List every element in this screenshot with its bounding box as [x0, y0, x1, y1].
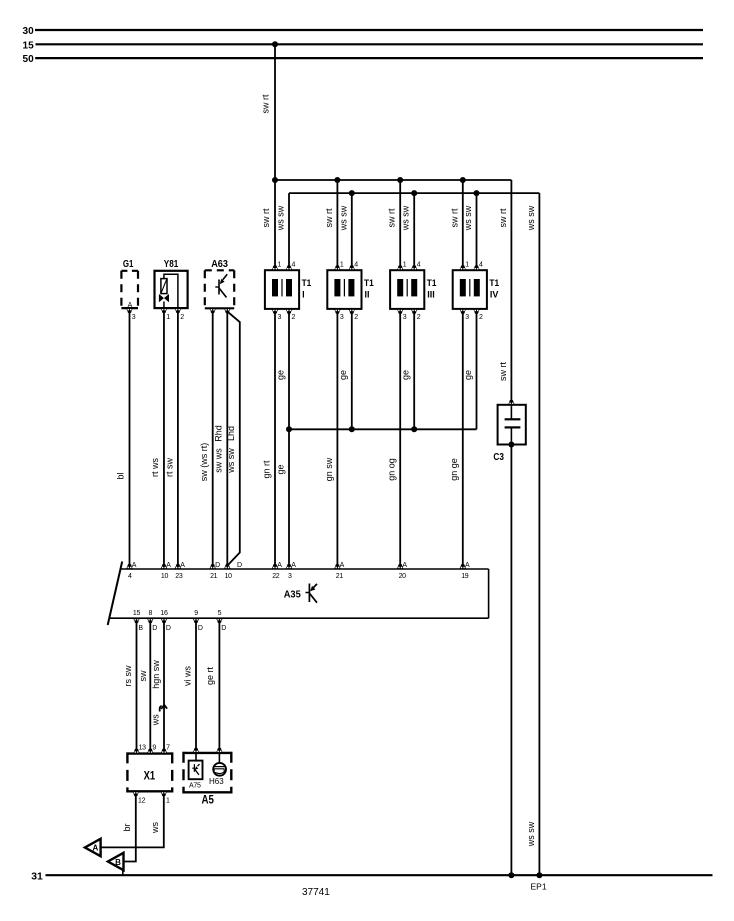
coil T1 I pin 4 [286, 262, 296, 271]
Y81 pin 1 [161, 308, 171, 321]
wire br X1 pin12 to ground B [123, 795, 136, 862]
svg-text:EP1: EP1 [531, 882, 547, 892]
control unit A35 box [108, 562, 489, 626]
svg-text:A: A [277, 562, 282, 569]
svg-text:5: 5 [218, 610, 222, 617]
svg-text:21: 21 [210, 573, 218, 580]
wire label ws sw coil III [401, 205, 411, 231]
svg-text:IV: IV [490, 290, 499, 300]
svg-text:I: I [302, 290, 305, 300]
wire label rt sw [164, 458, 174, 477]
svg-text:1: 1 [465, 262, 469, 269]
svg-text:30: 30 [23, 25, 34, 37]
colour change arrow on ws wire [160, 705, 167, 712]
wire label hgn sw [151, 660, 161, 689]
svg-text:sw rt: sw rt [498, 208, 508, 227]
svg-text:Lhd: Lhd [226, 426, 236, 441]
wire label br [122, 823, 132, 831]
bus wire terminal 50 [35, 57, 703, 59]
label coil T1 II [364, 278, 374, 300]
warning lamp H63 [213, 753, 226, 776]
wire label Rhd [213, 425, 223, 442]
svg-text:A: A [340, 562, 345, 569]
svg-text:A: A [166, 562, 171, 569]
wire gn sw coil II pin3 to A35 pin21 [336, 312, 338, 565]
svg-text:ws: ws [150, 822, 160, 834]
svg-text:III: III [427, 290, 435, 300]
svg-text:A: A [291, 562, 296, 569]
svg-text:2: 2 [417, 314, 421, 321]
svg-text:7: 7 [166, 745, 170, 752]
wire label rt ws [150, 458, 160, 477]
svg-text:II: II [365, 290, 370, 300]
wire label gn ge [449, 458, 459, 481]
A35 pin 19 [459, 562, 470, 580]
wire label ws sw coil II [338, 205, 348, 231]
svg-text:3: 3 [278, 314, 282, 321]
wire sw rt drop to coil T1 III pin1 [399, 180, 401, 267]
X1 pin 7 [161, 745, 171, 754]
A35 pin 16 [160, 610, 170, 632]
wire sw rt down to capacitor C3 [510, 180, 512, 405]
svg-text:4: 4 [128, 573, 132, 580]
svg-text:hgn sw: hgn sw [151, 660, 161, 689]
wire ws sw Lhd A63 to A35 pin10 [227, 312, 240, 566]
svg-text:A: A [128, 302, 133, 309]
svg-text:10: 10 [225, 573, 233, 580]
bus wire terminal 30 [35, 29, 703, 31]
wire gn og coil III pin3 to A35 pin20 [399, 312, 401, 565]
label terminal 31 [31, 871, 43, 883]
wire sw rt from terminal 15 down [274, 44, 276, 180]
label A35 [284, 589, 301, 601]
label H63 [209, 777, 224, 786]
G1 pin 3 [126, 308, 136, 321]
svg-text:rt sw: rt sw [164, 458, 174, 477]
wire label ge rt [205, 666, 215, 685]
wire rt ws Y81 pin1 to A35 pin10 [163, 311, 165, 565]
wire label ws sw (bottom right) [526, 821, 536, 847]
svg-text:3: 3 [403, 314, 407, 321]
svg-text:ge: ge [401, 370, 411, 380]
A5 pin (ge rt) [216, 748, 223, 753]
svg-text:3: 3 [465, 314, 469, 321]
wire hgn sw / ws A35 pin16 to X1 pin7 [163, 622, 165, 751]
svg-text:9: 9 [194, 610, 198, 617]
svg-text:rt ws: rt ws [150, 458, 160, 477]
svg-text:A5: A5 [202, 795, 215, 807]
svg-text:ws sw: ws sw [401, 205, 411, 231]
A35 pin 3 [286, 562, 297, 580]
A35 pin 5 [216, 610, 226, 632]
svg-text:4: 4 [417, 262, 421, 269]
wire label ws (ground) [150, 822, 160, 834]
svg-text:T1: T1 [302, 278, 312, 288]
label terminal 15 [23, 39, 34, 51]
wire label ws sw (Lhd wire) [226, 448, 236, 474]
svg-text:3: 3 [288, 573, 292, 580]
wire label sw rt (top) [261, 94, 271, 113]
coil T1 I pin 3 [272, 309, 282, 321]
svg-text:19: 19 [461, 573, 469, 580]
svg-text:gn rt: gn rt [261, 460, 271, 479]
wire label gn sw [324, 457, 334, 481]
wire label gn rt [261, 460, 271, 479]
label Y81 [164, 258, 179, 270]
label G1 [123, 258, 134, 270]
junction ws sw at EP1 [536, 872, 542, 878]
label coil T1 I [302, 278, 312, 300]
A35 pin 10 (rt ws) [161, 562, 172, 580]
svg-text:sw: sw [138, 670, 148, 682]
wire label sw rt coil I [261, 208, 271, 227]
wire label ge coil I [275, 370, 285, 380]
svg-text:T1: T1 [427, 278, 437, 288]
svg-text:ge: ge [338, 370, 348, 380]
wire sw rt drop to coil T1 I pin1 [274, 180, 276, 267]
X1 pin 9 [147, 745, 156, 754]
wire label sw rt above C3 [498, 362, 508, 381]
coil T1 II pin 4 [348, 262, 358, 271]
junction node coil IV sw rt [460, 177, 466, 183]
svg-text:16: 16 [160, 610, 168, 617]
label A63 [211, 258, 228, 270]
svg-text:vi ws: vi ws [182, 666, 192, 686]
wire ws sw drop to coil T1 II pin4 [351, 193, 353, 267]
coil T1 II pin 1 [334, 262, 344, 271]
wire label sw (ws rt) [199, 443, 209, 482]
coil T1 II pin 2 [348, 309, 358, 321]
coil T1 III pin 4 [411, 262, 421, 271]
svg-text:1: 1 [166, 798, 170, 805]
solenoid valve Y81 [155, 271, 188, 308]
svg-text:bl: bl [116, 472, 126, 479]
wire label sw rt coil II [324, 208, 334, 227]
svg-text:4: 4 [479, 262, 483, 269]
svg-text:sw rt: sw rt [498, 362, 508, 381]
wire ge rt A35 pin5 to H63 [218, 622, 220, 750]
wire bl G1 to A35 pin4 [129, 311, 131, 565]
wire ge coil II pin2 to ge bus [351, 312, 353, 429]
wire ws sw drop to coil T1 IV pin4 [476, 193, 478, 267]
svg-text:C3: C3 [493, 451, 504, 463]
svg-text:sw ws: sw ws [213, 448, 223, 473]
wire ws sw drop to coil T1 III pin4 [413, 193, 415, 267]
instrument unit A5 [184, 752, 232, 794]
junction node coil IV ws sw [474, 190, 480, 196]
wire label ge coil IV [463, 370, 473, 380]
X1 pin 1 [160, 791, 170, 804]
svg-text:A: A [180, 562, 185, 569]
svg-text:13: 13 [139, 745, 147, 752]
svg-text:ws sw: ws sw [338, 205, 348, 231]
label A75 [189, 783, 201, 790]
svg-text:12: 12 [138, 798, 146, 805]
svg-text:T1: T1 [364, 278, 374, 288]
svg-text:D: D [237, 562, 242, 569]
svg-text:D: D [221, 625, 226, 632]
svg-text:37741: 37741 [302, 887, 330, 898]
coil T1 IV pin 1 [459, 262, 469, 271]
label X1 [144, 770, 156, 782]
wire rs sw A35 pin15 to X1 pin13 [136, 622, 138, 751]
ground B [108, 853, 124, 870]
svg-text:br: br [122, 823, 132, 831]
junction node coil III sw rt [397, 177, 403, 183]
svg-text:D: D [198, 625, 203, 632]
svg-text:A35: A35 [284, 589, 301, 601]
svg-text:gn ge: gn ge [449, 458, 459, 481]
coil T1 IV pin 2 [473, 309, 483, 321]
wire sw rt distribution bus [275, 179, 511, 181]
svg-text:D: D [166, 625, 171, 632]
X1 pin 12 [132, 791, 145, 804]
svg-text:50: 50 [23, 53, 34, 65]
label coil T1 IV [489, 278, 499, 300]
junction ge bus coil II [349, 426, 355, 432]
svg-text:sw rt: sw rt [324, 208, 334, 227]
svg-text:ge: ge [275, 370, 285, 380]
svg-text:ws sw: ws sw [276, 205, 286, 231]
svg-text:T1: T1 [489, 278, 499, 288]
wire label sw rt (right drop) [498, 208, 508, 227]
wire label ws sw coil I [276, 205, 286, 231]
wire label Lhd [226, 426, 236, 441]
coil T1 III pin 3 [397, 309, 407, 321]
label terminal 30 [23, 25, 34, 37]
wire sw rt drop to coil T1 IV pin1 [462, 180, 464, 267]
svg-text:2: 2 [354, 314, 358, 321]
svg-text:1: 1 [403, 262, 407, 269]
display unit A75 [189, 753, 203, 779]
svg-text:ge: ge [275, 464, 285, 474]
wire gn rt coil I pin3 to A35 pin22 [274, 312, 276, 565]
wire label sw rt coil III [387, 208, 397, 227]
junction ge bus at coil I drop [286, 426, 292, 432]
ignition coil T1 III [390, 270, 424, 309]
bus wire terminal 15 [36, 43, 704, 45]
wire label sw [138, 670, 148, 682]
wire label ws sw coil IV [463, 205, 473, 231]
Y81 pin 2 [175, 308, 185, 321]
A35 pin 8 [147, 610, 157, 632]
svg-text:B: B [138, 625, 143, 632]
junction node coil I sw rt [272, 177, 278, 183]
wire label rs sw [123, 665, 133, 686]
svg-text:2: 2 [292, 314, 296, 321]
svg-text:ge: ge [463, 370, 473, 380]
junction node coil II ws sw [349, 190, 355, 196]
svg-text:9: 9 [152, 745, 156, 752]
svg-text:4: 4 [292, 262, 296, 269]
A35 pin 9 [193, 610, 203, 632]
wire ge bus [289, 428, 477, 430]
coil T1 III pin 2 [411, 309, 421, 321]
svg-text:8: 8 [149, 610, 153, 617]
label terminal 50 [23, 53, 34, 65]
A5 pin (vi ws) [193, 748, 200, 753]
A35 pin 21 (gn sw) [334, 562, 345, 580]
wire ws X1 pin1 to ground A [100, 795, 163, 848]
svg-text:ws sw: ws sw [526, 205, 536, 231]
X1 pin 13 [133, 745, 146, 754]
svg-text:ws sw: ws sw [526, 821, 536, 847]
svg-text:sw (ws rt): sw (ws rt) [199, 443, 209, 482]
svg-text:2: 2 [180, 314, 184, 321]
A35 pin 23 [175, 562, 186, 580]
svg-text:22: 22 [272, 573, 280, 580]
svg-text:3: 3 [340, 314, 344, 321]
svg-text:ws sw: ws sw [463, 205, 473, 231]
wire label ge coil II [338, 370, 348, 380]
svg-text:D: D [152, 625, 157, 632]
wire sw A35 pin8 to X1 pin9 [149, 622, 151, 751]
svg-text:H63: H63 [209, 777, 224, 786]
svg-text:23: 23 [175, 573, 183, 580]
A35 pin 10 (D) [224, 562, 242, 580]
A35 pin 4 [126, 562, 137, 580]
wire ground B stub to terminal 31 [122, 869, 124, 875]
svg-text:G1: G1 [123, 258, 134, 270]
generator G1 [121, 271, 138, 309]
wire label vi ws [182, 666, 192, 686]
coil T1 IV pin 3 [459, 309, 469, 321]
label A5 [202, 795, 215, 807]
wire sw rt drop to coil T1 II pin1 [336, 180, 338, 267]
wire label sw rt coil IV [449, 208, 459, 227]
control unit A63 [205, 270, 234, 308]
svg-text:1: 1 [340, 262, 344, 269]
svg-text:4: 4 [354, 262, 358, 269]
wire label sw ws [213, 448, 223, 473]
svg-text:1: 1 [278, 262, 282, 269]
A35 pin 22 [272, 562, 283, 580]
wire label ws (below arrow) [151, 714, 161, 726]
wire gn ge coil IV pin3 to A35 pin19 [462, 312, 464, 565]
coil T1 I pin 1 [272, 262, 282, 271]
svg-text:A63: A63 [211, 258, 228, 270]
A35 control symbol [306, 584, 318, 603]
svg-text:Rhd: Rhd [213, 425, 223, 442]
C3 top pin [508, 400, 515, 405]
wire label ge coil III [401, 370, 411, 380]
A63 right pin [224, 308, 231, 313]
svg-text:A: A [92, 844, 98, 853]
svg-text:1: 1 [166, 314, 170, 321]
wire ws sw distribution bus [289, 192, 539, 194]
junction node coil III ws sw [411, 190, 417, 196]
svg-text:15: 15 [133, 610, 141, 617]
svg-text:31: 31 [31, 871, 43, 883]
label C3 [493, 451, 504, 463]
coil T1 III pin 1 [397, 262, 407, 271]
bus wire terminal 31 [46, 874, 713, 876]
svg-text:gn og: gn og [387, 458, 397, 481]
coil T1 I pin 2 [286, 309, 296, 321]
svg-text:21: 21 [336, 573, 344, 580]
svg-text:X1: X1 [144, 770, 156, 782]
wire vi ws A35 pin9 to A75 [195, 622, 197, 750]
junction ge bus coil III [411, 426, 417, 432]
svg-text:15: 15 [23, 39, 34, 51]
wire sw ws Rhd A63 to A35 pin10 [226, 312, 228, 566]
svg-text:sw rt: sw rt [449, 208, 459, 227]
svg-text:sw rt: sw rt [261, 208, 271, 227]
wire sw rt C3 to EP1 [510, 445, 512, 876]
wire sw (ws rt) A63 to A35 pin21 [212, 312, 214, 566]
svg-text:gn sw: gn sw [324, 457, 334, 481]
svg-text:ge rt: ge rt [205, 666, 215, 685]
svg-text:10: 10 [161, 573, 169, 580]
wire label gn og [387, 458, 397, 481]
svg-text:rs sw: rs sw [123, 665, 133, 686]
svg-text:2: 2 [479, 314, 483, 321]
label coil T1 III [427, 278, 437, 300]
A35 pin 15 [133, 610, 143, 632]
coil T1 II pin 3 [334, 309, 344, 321]
junction sw rt at EP1 [508, 872, 514, 878]
wire rt sw Y81 pin2 to A35 pin23 [177, 311, 179, 565]
svg-text:sw rt: sw rt [387, 208, 397, 227]
ground A [85, 839, 101, 856]
A35 pin 20 [397, 562, 408, 580]
capacitor C3 [498, 405, 526, 445]
svg-text:A: A [402, 562, 407, 569]
A35 pin 21 (sw ws rt) [209, 562, 220, 580]
svg-text:20: 20 [399, 573, 407, 580]
junction on terminal 15 bus [272, 41, 278, 47]
svg-text:ws: ws [151, 714, 161, 726]
wire ge coil III pin2 to ge bus [413, 312, 415, 429]
ignition coil T1 II [327, 270, 361, 309]
svg-text:B: B [115, 858, 121, 867]
wire label ws sw (right drop) [526, 205, 536, 231]
drawing number 37741 [302, 887, 330, 898]
connector X1 [127, 752, 172, 792]
svg-text:3: 3 [132, 314, 136, 321]
wire label ge (drop to pin3) [275, 464, 285, 474]
svg-text:A75: A75 [189, 783, 201, 790]
A63 left pin [209, 308, 216, 313]
ignition coil T1 IV [453, 270, 487, 309]
svg-text:Y81: Y81 [164, 258, 179, 270]
wire ws sw right edge down to EP1 [538, 193, 540, 875]
svg-text:A: A [132, 562, 137, 569]
svg-text:A: A [465, 562, 470, 569]
node EP1 [531, 882, 547, 892]
svg-text:sw rt: sw rt [261, 94, 271, 113]
wire ge coil I pin2 to A35 pin3 [288, 312, 290, 565]
coil T1 IV pin 4 [473, 262, 483, 271]
junction node coil II sw rt [334, 177, 340, 183]
wire ge coil IV pin2 to ge bus corner [476, 312, 478, 429]
ignition coil T1 I [265, 270, 299, 309]
wire ws sw drop to coil T1 I pin4 [288, 193, 290, 267]
svg-text:D: D [215, 562, 220, 569]
wire label bl [116, 472, 126, 479]
svg-text:ws sw: ws sw [226, 448, 236, 474]
junction at C3 bottom [508, 442, 514, 448]
